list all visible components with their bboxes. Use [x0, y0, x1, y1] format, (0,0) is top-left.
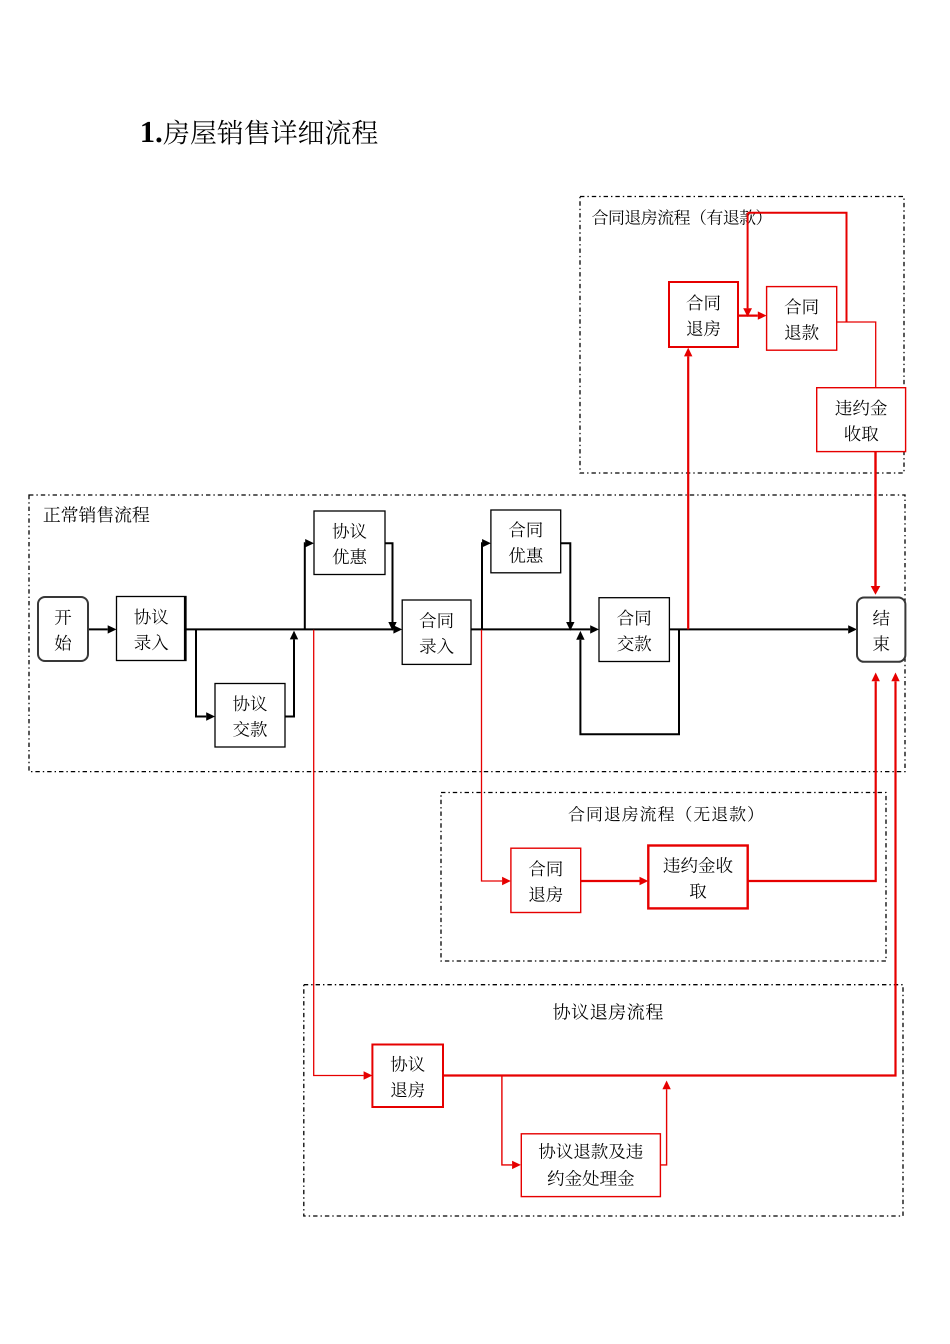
wire 协议优惠 return to main line [385, 543, 397, 631]
node 协议优惠 [314, 511, 385, 575]
container: contract checkout flow without refund [441, 793, 886, 962]
wire 合同退房 to 合同退款 (refund flow) [738, 311, 767, 319]
node 开始 (start) [38, 597, 88, 661]
node 协议退款及违约金处理金 [521, 1134, 660, 1197]
wire 合同优惠 return to main line [561, 543, 575, 631]
node 合同退款 (refund flow) [767, 287, 837, 351]
title text 房屋销售详细流程 [164, 120, 378, 145]
node 协议录入 [117, 597, 187, 661]
node 合同优惠 [491, 510, 561, 573]
wire 违约金收取 up to 结束 (no-refund flow) [748, 673, 880, 882]
node 合同录入 [402, 600, 471, 664]
wire main line down to 合同退房 (no-refund flow) [482, 630, 511, 885]
wire branch down to 协议退款及违约金处理金 [502, 1076, 521, 1170]
label 合同退房流程（有退款） [592, 209, 761, 225]
node 违约金收取 (no-refund flow) [648, 846, 747, 909]
wire 合同退款 loop drop arrow [743, 213, 752, 317]
wire branch down to 协议交款 [196, 629, 215, 720]
wire branch up to 合同优惠 [482, 539, 491, 629]
wire 协议录入 to 合同录入 main line [186, 625, 402, 633]
wire 协议交款 return to main line [285, 631, 298, 717]
wire 合同交款 repeat loop [576, 629, 679, 734]
title number 1. [142, 122, 161, 143]
label 协议退房流程 [553, 1003, 663, 1020]
node 违约金收取 (refund flow) [817, 388, 906, 452]
wire 协议退房 up to 结束 (agreement flow) [443, 673, 900, 1076]
node 合同退房 (refund flow) [669, 282, 738, 347]
wire main line down to 协议退房 (agreement flow) [314, 630, 373, 1080]
node 合同退房 (no-refund flow) [511, 848, 581, 912]
wire main line up to 合同退房 (refund flow) [684, 348, 692, 630]
wire 协议退款及违约金处理金 return [660, 1081, 671, 1165]
container: normal sales flow [29, 495, 905, 772]
wire 开始 to 协议录入 [88, 625, 117, 633]
wire 合同退款 repeat loop top [748, 213, 847, 322]
node 协议交款 [215, 684, 285, 748]
node 协议退房 (agreement flow) [372, 1045, 443, 1108]
wire 违约金收取 down to 结束 (refund flow) [871, 452, 881, 595]
node 结束 (end) [857, 598, 905, 662]
wire 合同录入 to 合同交款 [471, 625, 599, 633]
wire 合同交款 to 结束 [669, 625, 857, 633]
container: agreement checkout flow [304, 985, 903, 1216]
wire 合同退款 to 违约金收取 (refund flow) [837, 322, 876, 388]
container: contract checkout flow with refund [580, 197, 904, 474]
wire 合同退房 to 违约金收取 (no-refund flow) [581, 877, 649, 885]
label 合同退房流程（无退款） [569, 806, 753, 822]
node 合同交款 [599, 598, 669, 662]
label 正常销售流程 [44, 506, 150, 523]
wire branch up to 协议优惠 [305, 539, 314, 629]
